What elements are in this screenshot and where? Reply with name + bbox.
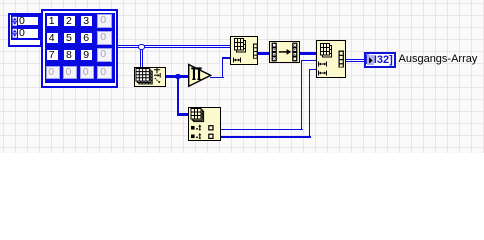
array control shell bbox=[41, 9, 118, 88]
index element 0 value bbox=[19, 16, 37, 27]
Index Array icon index row 2 bbox=[191, 134, 195, 138]
array cells active 3x3 bbox=[47, 16, 58, 27]
label Ausgangs-Array bbox=[399, 53, 484, 66]
wire 1D: Reshape1 to Reverse bbox=[258, 52, 270, 55]
Reshape1 icon 1D column bbox=[253, 44, 258, 59]
Reverse icon left column bbox=[272, 43, 277, 62]
wire scalar: Index Array out B bbox=[221, 136, 311, 138]
Reshape2 icon grid with shadow bbox=[320, 44, 331, 58]
wire 2D branch down to Array Size, right line bbox=[142, 49, 143, 67]
wire 1D into Index Array bbox=[177, 113, 190, 116]
Index Array icon index row 1 bbox=[191, 126, 195, 130]
array cells disabled row 4 bbox=[46, 66, 60, 80]
Reshape2 icon dim glyph 1 bbox=[318, 62, 326, 67]
Array Size icon grid stack bbox=[136, 69, 152, 84]
wire scalar: pi out right bbox=[210, 77, 224, 79]
junction ring on 2D wire bbox=[138, 44, 145, 51]
wire scalar: riser up bbox=[222, 57, 224, 78]
wire 2D branch down to Array Size, left line bbox=[140, 49, 141, 67]
wire scalar: A into Reshape2 dim1 bbox=[301, 60, 317, 62]
op Multiply Array Elements (pi triangle) bbox=[187, 63, 212, 88]
index element 0 spinner bbox=[12, 16, 18, 27]
wire 2D: Reshape2 to indicator, upper line bbox=[346, 59, 365, 60]
junction dot bbox=[175, 74, 181, 80]
Index Array node bbox=[188, 107, 221, 142]
index element 1 box bbox=[11, 27, 40, 40]
Reshape2 icon 1D column bbox=[338, 51, 343, 68]
wire 2D: Reshape2 to indicator, lower line bbox=[346, 61, 365, 62]
Index Array icon out square 1 bbox=[209, 125, 213, 129]
Index Array icon grid with shadow bbox=[191, 108, 204, 121]
Reshape Array 2 node bbox=[316, 40, 347, 78]
wire scalar: riser A bbox=[301, 60, 303, 131]
index element 0 box bbox=[11, 15, 40, 28]
index element 1 spinner bbox=[12, 28, 18, 39]
Reshape1 icon grid with shadow bbox=[234, 39, 245, 53]
Index Array icon out square 2 bbox=[209, 134, 213, 138]
Array Size icon measure glyph bbox=[154, 68, 160, 82]
wire scalar: Index Array out A bbox=[221, 129, 303, 131]
array cells disabled column 4 bbox=[97, 14, 112, 28]
wire scalar: into Reshape1 dim input bbox=[222, 57, 231, 59]
wire 2D array: array to Reshape1, upper line bbox=[118, 45, 230, 46]
index element 1 value bbox=[19, 28, 37, 39]
Reshape Array 1 node bbox=[230, 36, 259, 65]
wire 1D: Reverse to Reshape2 bbox=[300, 52, 316, 55]
wire 1D branch down bbox=[177, 76, 180, 116]
wire scalar: B into Reshape2 dim2 bbox=[309, 69, 317, 71]
wire 1D: Array Size to Multiply Array Elements bbox=[166, 75, 189, 78]
wire scalar: riser B bbox=[309, 69, 311, 138]
index display frame of array control bbox=[8, 13, 42, 48]
Reverse 1D Array node bbox=[269, 41, 300, 63]
wire 2D array: lower line bbox=[118, 47, 230, 48]
array element matrix panel bbox=[45, 13, 115, 83]
indicator terminal Ausgangs-Array bbox=[364, 52, 396, 68]
Reverse icon arrow bbox=[279, 51, 287, 53]
Array Size node bbox=[134, 67, 166, 87]
Reshape2 icon dim glyph 2 bbox=[318, 71, 326, 76]
Reverse icon right column bbox=[292, 43, 297, 62]
Reshape1 icon dim glyph bbox=[233, 58, 240, 63]
